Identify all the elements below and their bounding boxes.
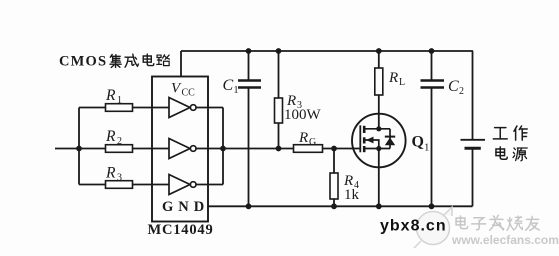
svg-text:MC14049: MC14049: [148, 222, 214, 238]
svg-text:V: V: [171, 81, 182, 97]
svg-text:1k: 1k: [344, 187, 360, 203]
svg-text:3: 3: [117, 173, 122, 184]
svg-text:C: C: [448, 78, 459, 95]
svg-text:Q: Q: [412, 134, 424, 151]
svg-text:1: 1: [424, 142, 430, 154]
svg-text:1: 1: [117, 95, 122, 106]
svg-text:C: C: [223, 77, 234, 94]
svg-text:GND: GND: [162, 199, 209, 215]
svg-text:CC: CC: [182, 88, 196, 99]
svg-text:L: L: [399, 77, 405, 88]
svg-text:R: R: [105, 128, 116, 145]
svg-text:R: R: [298, 130, 308, 146]
svg-text:2: 2: [117, 136, 122, 147]
svg-text:ybx8.cn: ybx8.cn: [380, 218, 447, 235]
svg-text:1: 1: [234, 85, 239, 96]
svg-text:R: R: [388, 70, 398, 86]
svg-text:100W: 100W: [284, 107, 322, 123]
svg-text:CMOS: CMOS: [59, 54, 107, 70]
svg-text:R: R: [105, 165, 116, 182]
svg-text:www.elecfans.com: www.elecfans.com: [451, 233, 559, 247]
svg-text:G: G: [309, 137, 316, 148]
svg-text:2: 2: [459, 86, 464, 97]
svg-text:R: R: [105, 87, 116, 104]
